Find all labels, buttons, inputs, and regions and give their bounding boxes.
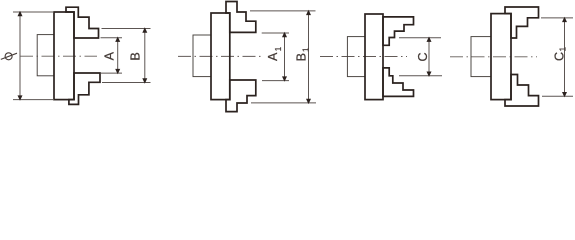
centerline fig4 xyxy=(450,56,537,58)
extension line top for B1 xyxy=(250,10,316,12)
extension line top for A1 xyxy=(262,32,289,34)
flange fig1 xyxy=(37,35,54,76)
extension line top for phi xyxy=(13,11,54,13)
extension line top for B xyxy=(102,28,151,30)
upper jaw fig4 (steps facing down-right) xyxy=(505,7,539,38)
arrowheads B xyxy=(142,27,147,83)
arrowheads B1 xyxy=(306,10,311,104)
extension line bottom for A xyxy=(101,72,122,74)
flange fig4 xyxy=(471,37,491,77)
extension line bottom for C xyxy=(399,75,442,77)
dimension line A1 xyxy=(284,33,286,81)
lower jaw fig4 (steps facing up-right) xyxy=(505,75,539,107)
svg-text:1: 1 xyxy=(301,47,310,52)
svg-text:1: 1 xyxy=(558,46,567,51)
arrowheads phi xyxy=(18,11,23,101)
dimension line B1 xyxy=(308,11,310,103)
extension line top for C1 xyxy=(541,17,573,19)
dimension line C1 xyxy=(564,18,566,96)
extension line bottom for C1 xyxy=(542,95,573,97)
flange fig3 xyxy=(347,37,365,77)
flange fig2 xyxy=(193,35,211,77)
svg-text:B: B xyxy=(294,53,308,61)
lower jaw fig1 (stepped, steps facing up-right) xyxy=(69,73,100,104)
upper jaw fig1 (stepped, steps facing down-right) xyxy=(66,7,99,38)
upper jaw fig2 xyxy=(226,2,256,33)
chuck body fig4 xyxy=(491,14,511,100)
extension line bottom for B1 xyxy=(251,102,316,104)
arrowheads A1 xyxy=(282,32,287,82)
centerline fig1 xyxy=(20,55,97,57)
label phi (rotated diameter symbol) xyxy=(1,53,17,60)
lower jaw fig3 (steps facing up-left) xyxy=(383,68,414,97)
lower jaw fig2 xyxy=(226,80,256,112)
chuck body fig1 xyxy=(54,12,74,100)
extension line top for A xyxy=(101,37,123,39)
extension line bottom for B xyxy=(102,82,151,84)
chuck body fig3 xyxy=(365,14,383,100)
svg-text:B: B xyxy=(128,52,142,60)
arrowheads C xyxy=(427,37,432,77)
dimension line C xyxy=(428,38,430,76)
svg-text:1: 1 xyxy=(274,46,283,51)
extension line top for C xyxy=(399,37,441,39)
extension line bottom for A1 xyxy=(262,80,289,82)
upper jaw fig3 (steps facing down-left) xyxy=(383,17,414,45)
svg-text:C: C xyxy=(416,52,430,61)
chuck body fig2 xyxy=(211,13,230,100)
svg-text:C: C xyxy=(553,52,567,61)
svg-text:A: A xyxy=(266,52,280,61)
dimension line A xyxy=(117,38,119,73)
svg-text:A: A xyxy=(102,51,116,60)
arrowheads A xyxy=(115,37,120,75)
arrowheads C1 xyxy=(562,17,567,98)
dimension line B xyxy=(144,29,146,83)
dimension line phi xyxy=(19,12,21,100)
centerline fig3 xyxy=(320,56,407,58)
centerline fig2 xyxy=(178,55,261,57)
extension line bottom for phi xyxy=(13,99,54,101)
